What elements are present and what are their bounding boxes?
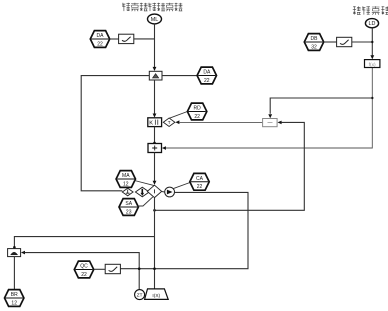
junction dot at sum box top — [153, 142, 156, 145]
wire hexagon DB to switch S2 — [324, 41, 337, 43]
wire diamond chain connections — [162, 191, 165, 194]
wire from f(x) drop line into sum box — [166, 68, 373, 148]
arrow into K box top — [153, 114, 157, 118]
junction dot output bus x154.5 — [153, 267, 156, 270]
hexagon DB/32 top right — [304, 34, 323, 51]
svg-text:I(X): I(X) — [152, 293, 160, 299]
switch S2 — [337, 37, 352, 46]
wire LD ellipse down to f(x) — [371, 28, 373, 58]
svg-text:K: K — [149, 121, 153, 127]
wire loopback from output line up into divider box — [155, 122, 304, 210]
transmitter ellipse LD — [365, 19, 378, 28]
svg-text:LD: LD — [369, 21, 376, 27]
svg-text:12: 12 — [11, 300, 17, 306]
svg-text:22: 22 — [194, 114, 200, 120]
wire from ZT drop line into T2 right — [25, 253, 140, 290]
wire diamond T top to hexagon RD — [170, 112, 188, 119]
svg-text:ML: ML — [151, 17, 159, 23]
limiter circle with wedge — [165, 187, 175, 197]
wire MA station output going right then down to output bus — [121, 192, 248, 268]
svg-text:22: 22 — [81, 272, 87, 278]
svg-text:f(x): f(x) — [369, 62, 376, 68]
title text 锅炉负载 (pseudo-glyphs) — [353, 6, 388, 15]
hexagon SA/23 — [119, 199, 138, 216]
wire circle to hexagon CA — [173, 182, 191, 189]
wire T1 bottom to PI block — [154, 80, 156, 115]
wire main vertical from ML down to setpoint box — [154, 24, 156, 70]
wire hexagon MA to transfer diamond top vertex — [135, 181, 155, 186]
svg-text:22: 22 — [97, 41, 103, 47]
junction dot output bus x138 — [138, 267, 141, 270]
PI controller box K — [148, 118, 162, 127]
position transmitter circle ZT — [135, 290, 145, 300]
svg-text:T: T — [168, 120, 171, 125]
svg-text:22: 22 — [197, 184, 203, 190]
actuator trapezoid I(X) — [145, 289, 169, 300]
wire sum box bottom to transfer diamond — [154, 153, 156, 183]
transfer diamond T on main line — [147, 185, 161, 197]
arrow into sum box right — [162, 146, 166, 150]
svg-text:32: 32 — [311, 44, 317, 50]
bias diamond (perp symbol) — [122, 188, 133, 196]
arrow into T1 top — [153, 67, 157, 71]
arrow into transfer diamond top — [153, 181, 157, 185]
tracking diamond T beside K box — [163, 118, 175, 127]
hexagon CA/22 — [190, 173, 209, 190]
summer box + — [148, 144, 162, 153]
hexagon MA/12 — [116, 171, 135, 188]
svg-text:RD: RD — [193, 106, 201, 112]
svg-text:BR: BR — [11, 292, 18, 298]
junction dot main line y210 — [153, 209, 156, 212]
hexagon DA/22 right of T1 — [197, 67, 216, 84]
wire branch y236 from main line to deviation box T2 — [14, 237, 154, 249]
svg-text:22: 22 — [204, 78, 210, 84]
hexagon RD/22 — [187, 103, 206, 120]
deviation box T2 (filled triangle) — [8, 249, 21, 257]
junction dot on f(x) drop at y=98 — [371, 97, 373, 99]
arrow into divider box right — [278, 121, 282, 125]
wire T1 left going left and down to MA station output line — [81, 76, 149, 191]
svg-text:DA: DA — [203, 70, 211, 76]
title text 吸收塔浆液浓度 (pseudo-glyphs) — [122, 3, 182, 12]
wire K bottom to sum box — [154, 127, 156, 144]
wire switch S2 to LD line — [352, 41, 373, 43]
svg-text:DB: DB — [311, 36, 319, 42]
wire from f(x) drop to divider box top — [270, 98, 372, 114]
transmitter ellipse ML — [148, 14, 162, 24]
wire transfer diamond bottom down the main line to actuator — [154, 198, 156, 289]
wire from divider box left to diamond T — [179, 121, 262, 123]
junction dot at S2 line — [371, 41, 373, 43]
junction dot at T2 top — [13, 246, 16, 249]
wire hexagon DA to switch S1 — [110, 38, 119, 40]
svg-text:SA: SA — [125, 201, 132, 207]
switch S3 — [105, 264, 120, 273]
svg-text:CA: CA — [196, 176, 204, 182]
wire T1 right to hexagon DA/22 — [162, 75, 197, 77]
svg-text:ZT: ZT — [137, 293, 143, 298]
wire hexagon QC to switch S3 — [94, 268, 105, 270]
arrow into diamond T right vertex — [175, 120, 179, 124]
arrow into divider box top — [268, 114, 272, 118]
divider box — [263, 119, 278, 127]
svg-text:MA: MA — [122, 173, 130, 179]
function box f(x) — [365, 60, 380, 68]
svg-text:DA: DA — [97, 33, 105, 39]
setpoint transfer box T1 (triangle) — [149, 71, 162, 80]
wire switch S1 to main line — [134, 38, 155, 40]
svg-text:12: 12 — [123, 181, 129, 187]
arrow into T2 right — [21, 251, 25, 255]
hexagon DA/22 top-left — [90, 31, 109, 48]
arrow into f(x) top — [370, 55, 374, 59]
manual increase/decrease diamond — [135, 187, 149, 197]
wire T2 bottom to hexagon BR — [13, 257, 15, 290]
switch S1 — [119, 34, 134, 43]
svg-text:QC: QC — [80, 264, 88, 270]
wire hexagon SA to transfer diamond bottom vertex — [138, 197, 153, 206]
hexagon BR/12 — [5, 290, 24, 307]
hexagon QC/22 — [74, 261, 93, 278]
svg-text:23: 23 — [126, 209, 132, 215]
